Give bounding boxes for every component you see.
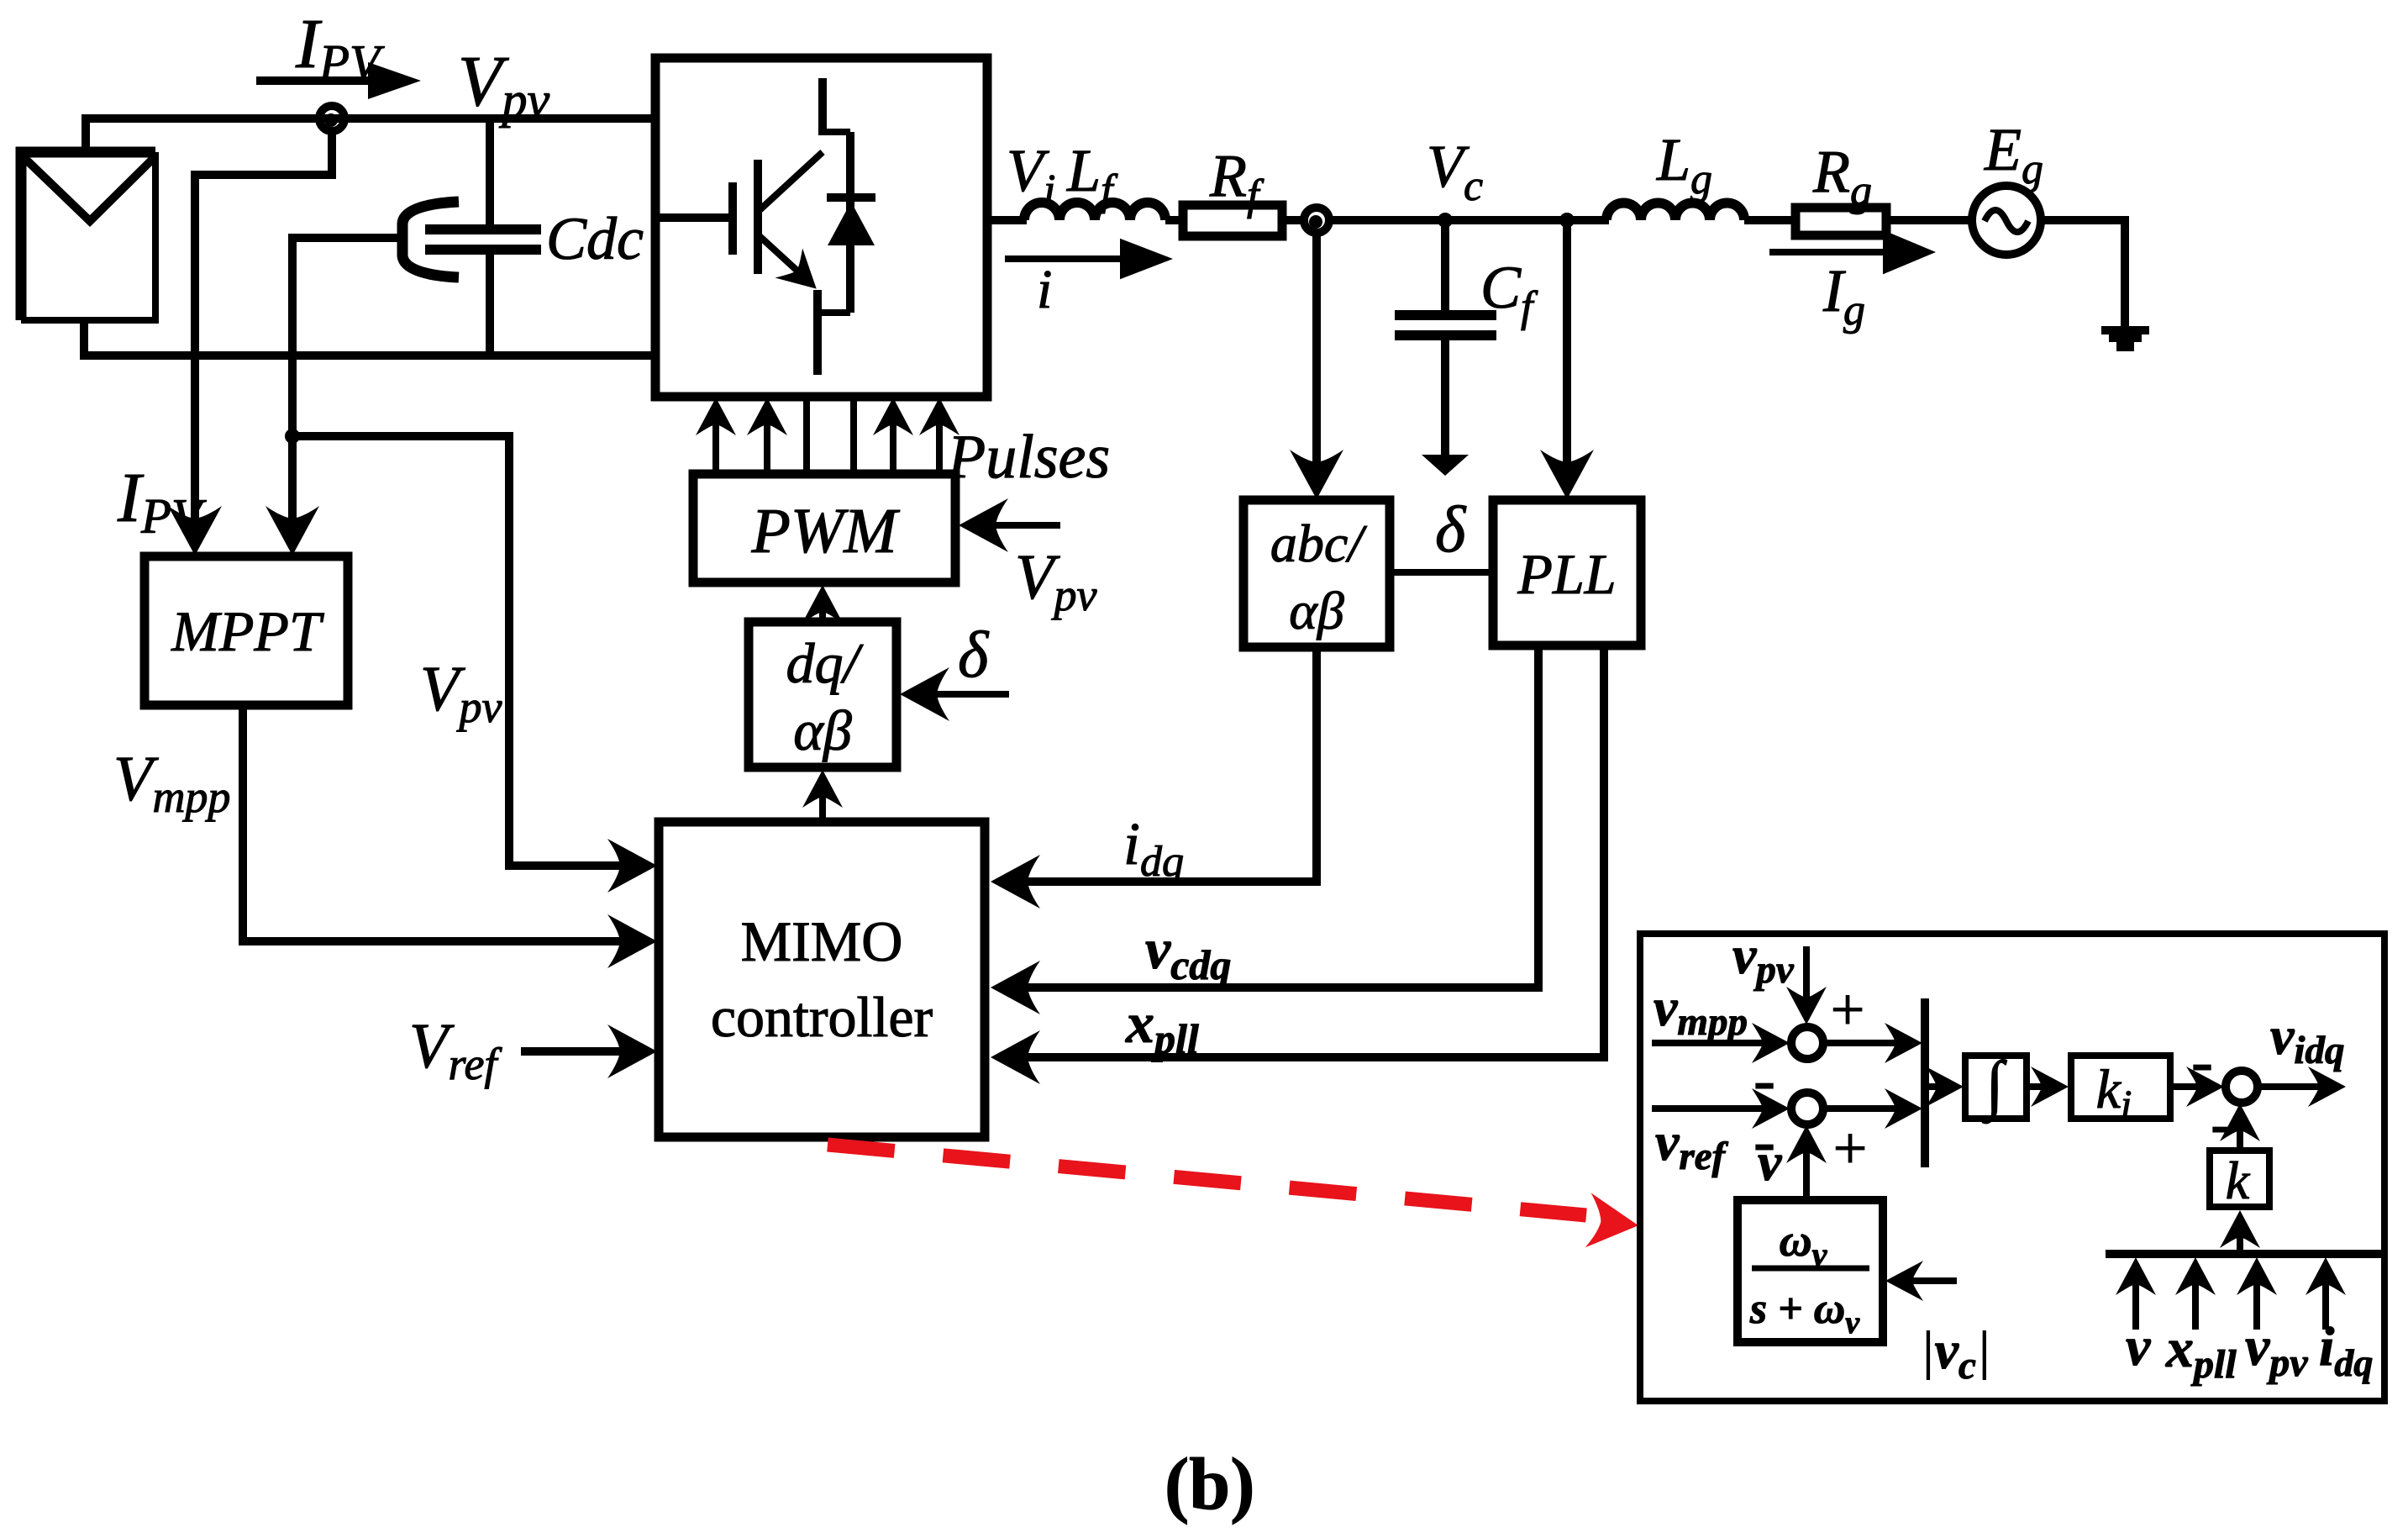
wire node to Lg bbox=[1328, 216, 1609, 224]
svg-text:PLL: PLL bbox=[1517, 542, 1616, 606]
transistor IGBT bbox=[660, 78, 850, 375]
wire signal bus bbox=[2106, 1250, 2384, 1258]
mux bar bbox=[1921, 998, 1929, 1167]
arrow bus input xpll bbox=[2175, 1257, 2216, 1330]
node Cf junction bbox=[1438, 213, 1453, 228]
wire Rf to node bbox=[1282, 216, 1306, 224]
svg-text:controller: controller bbox=[711, 985, 933, 1049]
inset controller detail box bbox=[1640, 934, 2384, 1401]
svg-text:Cdc: Cdc bbox=[546, 205, 644, 272]
wire PV bottom rail bbox=[84, 323, 655, 356]
svg-text:αβ: αβ bbox=[793, 698, 852, 762]
arrow vpv into sum1 bbox=[1786, 946, 1827, 1024]
PLL block bbox=[1493, 500, 1641, 645]
arrow vmpp into sum1 bbox=[1652, 1023, 1790, 1063]
arrow vc into filter bbox=[1885, 1261, 1957, 1301]
wire IPV sense down to MPPT bbox=[195, 129, 332, 546]
PWM block bbox=[693, 474, 955, 582]
arrow bus to k bbox=[2220, 1210, 2260, 1254]
ground Eg bbox=[2101, 326, 2149, 351]
wire Cdc tap to MPPT bbox=[292, 238, 401, 546]
arrow filter to sum2 bbox=[1786, 1125, 1827, 1200]
pulses wires bbox=[696, 398, 960, 474]
red dashed pointer bbox=[828, 1145, 1641, 1253]
arrow sum2 to bar bbox=[1823, 1088, 1922, 1129]
capacitor Cf bbox=[1395, 220, 1496, 456]
svg-text:PWM: PWM bbox=[750, 496, 900, 566]
svg-text:dq/: dq/ bbox=[786, 631, 865, 695]
abc/ab block bbox=[1243, 500, 1390, 647]
capacitor Cdc bbox=[402, 119, 541, 356]
svg-text:i: i bbox=[1037, 259, 1052, 320]
arrow i current bbox=[1005, 239, 1173, 279]
integrator block bbox=[1965, 1047, 2027, 1124]
svg-text:v: v bbox=[2126, 1316, 2151, 1377]
wire abc to PLL bbox=[1390, 569, 1493, 576]
resistor Rf bbox=[1183, 205, 1282, 236]
svg-text:∫: ∫ bbox=[1981, 1047, 2007, 1124]
wire Vmpp to MIMO bbox=[243, 705, 623, 941]
wire Vpv sense to MIMO bbox=[292, 436, 623, 866]
arrow vidq output bbox=[2258, 1067, 2346, 1107]
wire inverter output bbox=[987, 216, 1027, 224]
svg-text:abc/: abc/ bbox=[1270, 514, 1367, 573]
node Vc terminal bbox=[1304, 208, 1329, 233]
arrow MIMO to dq bbox=[802, 770, 843, 822]
wire vcdq to MIMO bbox=[1023, 645, 1538, 988]
arrow Vpv into PWM bbox=[959, 498, 1060, 552]
ground Cf bbox=[1422, 455, 1469, 476]
wire xpll to MIMO bbox=[1023, 645, 1604, 1057]
svg-text:k: k bbox=[2226, 1151, 2251, 1210]
svg-text:δ: δ bbox=[958, 618, 990, 691]
wire Lg to Rg bbox=[1744, 216, 1795, 224]
wire Rg to Eg bbox=[1886, 216, 1973, 224]
arrow vref into sum2 bbox=[1652, 1088, 1790, 1129]
arrow bus input v bbox=[2116, 1257, 2156, 1330]
wire node to abc block bbox=[1312, 232, 1321, 466]
svg-text:MPPT: MPPT bbox=[171, 599, 324, 663]
MIMO controller block bbox=[659, 822, 985, 1137]
inverter box bbox=[655, 58, 987, 397]
arrow integrator to ki bbox=[2027, 1067, 2069, 1107]
summing junction S3 bbox=[2226, 1071, 2258, 1103]
svg-text:+: + bbox=[1833, 1114, 1868, 1182]
resistor Rg bbox=[1795, 208, 1886, 235]
diode freewheeling bbox=[827, 132, 875, 313]
arrow bar to integrator bbox=[1925, 1083, 1938, 1090]
node junction Vpv sense bbox=[285, 429, 300, 444]
svg-text:MIMO: MIMO bbox=[741, 909, 903, 973]
arrow bus input idq bbox=[2305, 1257, 2346, 1330]
arrow delta into dq bbox=[900, 667, 1009, 721]
inductor Lg bbox=[1606, 203, 1744, 220]
wire node to PLL block bbox=[1563, 220, 1571, 466]
wire PV top lead bbox=[86, 119, 655, 151]
svg-text:s + ωv: s + ωv bbox=[1749, 1285, 1860, 1340]
wire Lf to Rf bbox=[1165, 216, 1183, 224]
node Vpv terminal bbox=[319, 106, 344, 131]
dq/ab block bbox=[749, 622, 896, 767]
svg-text:(b): (b) bbox=[1165, 1444, 1255, 1525]
summing junction S1 bbox=[1791, 1027, 1823, 1059]
gain ki block bbox=[2071, 1056, 2170, 1127]
svg-text:|vc|: |vc| bbox=[1920, 1320, 1990, 1388]
wire idq to MIMO bbox=[1023, 647, 1317, 882]
arrow Ig current bbox=[1769, 230, 1936, 275]
filter block wv bbox=[1738, 1200, 1883, 1342]
svg-text:v: v bbox=[1758, 1132, 1782, 1192]
svg-text:δ: δ bbox=[1435, 492, 1467, 566]
svg-text:Pulses: Pulses bbox=[947, 423, 1110, 492]
wire Eg to ground bbox=[2041, 220, 2125, 328]
svg-text:αβ: αβ bbox=[1289, 581, 1344, 640]
MPPT block bbox=[145, 556, 348, 705]
node PLL junction bbox=[1559, 213, 1575, 228]
arrow ki to sum3 bbox=[2170, 1067, 2224, 1107]
source Eg AC bbox=[1972, 186, 2041, 255]
PV array panel bbox=[21, 152, 155, 320]
arrow k to sum3 bbox=[2220, 1103, 2260, 1151]
inductor Lf bbox=[1024, 203, 1165, 220]
arrow Vref into MIMO bbox=[521, 1024, 657, 1078]
summing junction S2 bbox=[1791, 1093, 1823, 1125]
arrow sum1 to bar bbox=[1823, 1023, 1922, 1063]
arrow bus input vpv bbox=[2237, 1257, 2277, 1330]
svg-text:+: + bbox=[1831, 976, 1865, 1043]
arrow dq to PWM bbox=[802, 585, 843, 623]
arrow IPV current direction bbox=[256, 62, 421, 99]
gain k block bbox=[2210, 1151, 2269, 1210]
